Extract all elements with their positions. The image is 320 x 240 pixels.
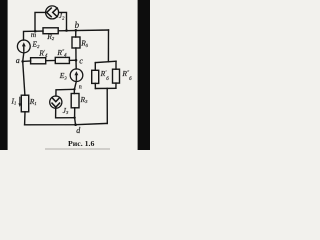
resistor R1 — [21, 95, 28, 112]
wire node a down to R1 — [23, 61, 25, 95]
svg-text:a: a — [16, 56, 20, 65]
J3 chevron arrows pointing down — [52, 103, 60, 107]
junction dot J3 bottom — [73, 117, 75, 119]
wire J3 top connector — [56, 89, 75, 96]
faint next-line ghost under caption — [45, 148, 110, 149]
svg-text:c: c — [79, 55, 83, 65]
wire R"6 bottom — [115, 83, 117, 88]
wire lower connector of R6 pair — [95, 87, 116, 89]
node c junction dot — [75, 59, 78, 62]
J2 chevron arrows pointing left — [47, 8, 52, 17]
voltage source E2 — [17, 40, 30, 53]
wire node b down to R5 — [75, 30, 77, 37]
wire R2 to b to right corner — [58, 29, 108, 32]
node b junction dot — [75, 29, 78, 32]
svg-text:n: n — [79, 84, 82, 90]
wire R3 down to node d — [74, 108, 77, 125]
voltage source E3 — [70, 69, 83, 82]
wire R5 to node c — [75, 48, 77, 60]
resistor R2 — [43, 28, 58, 34]
wire top-left: J2 loop top from corner to circle — [35, 12, 46, 31]
E3 arrow up — [75, 74, 77, 80]
resistor R3 — [71, 94, 79, 108]
node m junction dot — [34, 30, 37, 33]
wire bottom — [25, 123, 108, 124]
wire E3 to node n to R3 — [74, 82, 76, 94]
resistor R5 — [72, 37, 80, 48]
wire R1 to bottom-left corner — [24, 112, 26, 125]
current source J3 — [50, 96, 62, 108]
wire splitter to R'6 — [94, 63, 96, 71]
wire main horizontal m-b wire (left part to R2) — [24, 31, 44, 40]
wire R'4 to R"4 — [46, 60, 56, 62]
resistor R"4 — [55, 57, 69, 63]
right page-edge black bar — [138, 0, 150, 150]
wire node a to R'4 — [23, 60, 31, 62]
wire R"4 to node c — [69, 59, 76, 61]
node a junction dot — [21, 60, 24, 63]
svg-text:m: m — [31, 30, 37, 39]
wire E2 to node a — [23, 53, 24, 62]
resistor R"6 — [113, 69, 120, 83]
I1 current arrow — [19, 97, 21, 104]
resistor R'4 — [31, 58, 46, 64]
svg-text:Рис. 1.6: Рис. 1.6 — [68, 139, 94, 148]
node n junction dot — [73, 88, 75, 90]
wire right side vertical from top corner — [107, 30, 109, 62]
svg-text:b: b — [75, 20, 80, 30]
wire top-right: J2 circle to right corner down to main wire — [59, 12, 67, 30]
junction dot at J2 right leg — [65, 29, 68, 32]
wire node c to E3 — [75, 60, 77, 69]
wire splitter to R"6 — [115, 61, 117, 69]
wire J3 bottom connector — [56, 108, 75, 118]
current source J2 — [46, 6, 59, 19]
wire mid vertical down to bottom wire — [106, 88, 108, 123]
resistor R'6 — [92, 70, 99, 83]
E2 arrow up — [23, 45, 25, 51]
wire splitter horizontal R6 branch top — [95, 61, 116, 62]
left page-edge black bar — [0, 0, 8, 150]
wire R'6 bottom — [94, 83, 96, 88]
node d junction dot — [74, 123, 77, 126]
